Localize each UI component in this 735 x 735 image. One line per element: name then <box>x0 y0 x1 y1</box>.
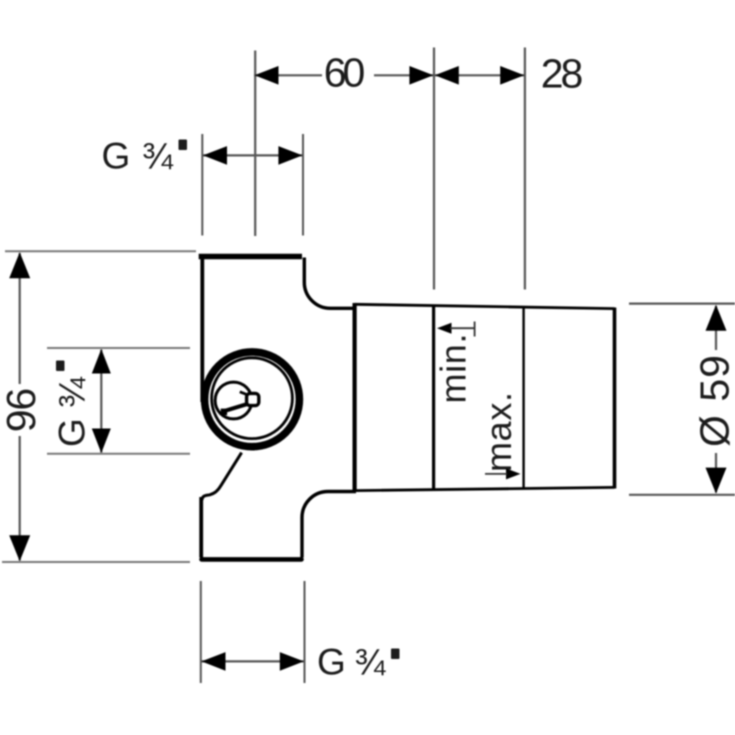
96 bottom arrow <box>9 535 30 561</box>
dia 59 bottom arrow <box>706 468 727 494</box>
spindle corner block <box>221 409 227 416</box>
dimension 60 line <box>254 74 322 76</box>
body top-right step (vertical, fillet, horizontal to sleeve) <box>304 258 356 309</box>
valve face inner ring <box>212 358 293 439</box>
dia 59 top arrow <box>706 305 727 331</box>
extension line x=525 (max insertion) <box>524 48 526 290</box>
svg-text:max.: max. <box>478 392 519 472</box>
sleeve top edge <box>355 304 615 308</box>
top G3/4 extension line right <box>302 134 304 236</box>
svg-text:G: G <box>102 136 131 177</box>
max arrow <box>506 468 521 479</box>
side G3/4 bottom extension line <box>47 453 190 455</box>
svg-text:96: 96 <box>0 388 44 433</box>
bottom G3/4 extension line left <box>200 581 202 683</box>
svg-text:Ø 59: Ø 59 <box>692 355 735 447</box>
dimension 28 right arrow <box>500 66 524 85</box>
svg-text:60: 60 <box>324 50 366 96</box>
spindle wedge upper line <box>240 392 248 395</box>
dimension 60 left arrow <box>255 66 279 85</box>
body lower-left edge <box>199 497 203 558</box>
spindle circle <box>215 382 252 419</box>
96 dimension line upper <box>19 253 21 384</box>
valve face outer ring <box>205 352 300 447</box>
dia 59 bottom extension line <box>629 494 735 496</box>
96 top extension line <box>5 250 196 252</box>
sleeve right edge <box>613 308 617 489</box>
body bottom-right edge with fillet to sleeve <box>302 492 356 558</box>
centerline through valve (top extension) <box>254 51 256 237</box>
sleeve left edge <box>353 303 357 492</box>
min arrow <box>437 323 452 334</box>
side G3/4 label <box>52 361 93 448</box>
sleeve inner line min <box>432 305 435 490</box>
dimension 60 right arrow <box>409 66 433 85</box>
side G3/4 dimension line <box>100 350 102 453</box>
body left edge <box>200 254 204 402</box>
dimension 28 line <box>434 74 525 76</box>
svg-text:¾: ¾ <box>355 642 387 683</box>
sleeve inner line max <box>522 306 524 489</box>
bottom G3/4 left arrow <box>202 652 226 671</box>
body top edge <box>199 254 302 260</box>
dia 59 dimension line upper <box>715 306 717 350</box>
svg-text:G: G <box>317 642 346 683</box>
svg-text:¾: ¾ <box>142 136 174 177</box>
bottom G3/4 dimension line <box>202 660 305 662</box>
spindle square <box>247 393 259 405</box>
96 bottom extension line <box>2 561 190 563</box>
dia 59 dimension line lower <box>715 453 717 493</box>
top G3/4 right arrow <box>278 146 302 165</box>
svg-text:min.: min. <box>433 334 474 404</box>
sleeve bottom edge <box>355 487 615 490</box>
body bottom-left diagonal notch and step <box>202 453 242 501</box>
top G3/4 dimension line <box>203 154 302 156</box>
side G3/4 top extension line <box>47 347 190 349</box>
svg-text:28: 28 <box>541 51 584 97</box>
svg-text:G: G <box>52 418 93 447</box>
body bottom edge <box>202 557 302 562</box>
bottom G3/4 extension line right <box>304 581 306 683</box>
dimension 28 left arrow <box>435 66 459 85</box>
svg-text:¾: ¾ <box>52 376 93 408</box>
top G3/4 extension line left <box>201 134 203 236</box>
side G3/4 top arrow <box>92 349 111 374</box>
bottom G3/4 right arrow <box>280 652 304 671</box>
dia 59 top extension line <box>629 303 735 305</box>
side G3/4 bottom arrow <box>92 429 111 454</box>
top G3/4 left arrow <box>203 146 227 165</box>
spindle wedge lower line <box>225 404 248 411</box>
96 top arrow <box>9 252 30 278</box>
extension line x=434 (min insertion) <box>433 48 435 290</box>
96 dimension line lower <box>19 436 21 561</box>
